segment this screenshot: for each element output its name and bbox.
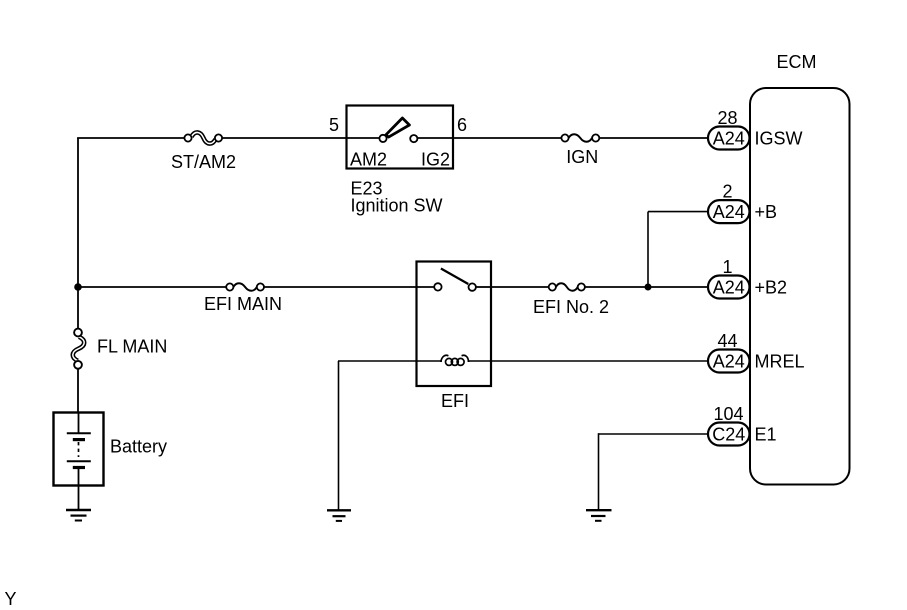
contact IG2	[410, 135, 417, 142]
wire: MREL ground leg riser (x=338)	[338, 361, 340, 510]
switch lever (key wedge)	[386, 118, 410, 137]
battery box	[54, 413, 104, 486]
svg-text:EFI No. 2: EFI No. 2	[533, 297, 609, 317]
wire: fuse IGN to ECM pin IGSW	[599, 137, 709, 139]
wire: +B branch to ECM pin +B	[648, 211, 709, 213]
wire: E1 ground riser	[598, 433, 600, 510]
wire: E23 internal, IG2 contact to pin 6	[417, 137, 453, 139]
wire: ECM pin E1 to ground leg	[599, 433, 710, 435]
ground (battery)	[66, 510, 91, 521]
svg-text:6: 6	[457, 115, 467, 135]
fusible link ST/AM2	[184, 132, 222, 143]
connector C24 pin E1	[708, 423, 750, 446]
fusible link FL MAIN	[73, 329, 84, 369]
ignition switch E23 box	[347, 106, 454, 169]
wire: fuse EFI MAIN to EFI relay box	[264, 286, 416, 288]
wire: E23 internal, pin5 to AM2 contact	[346, 137, 379, 139]
battery cell 2 plates	[67, 461, 91, 467]
svg-text:28: 28	[717, 108, 737, 128]
svg-text:2: 2	[722, 182, 732, 202]
svg-text:C24: C24	[712, 424, 745, 444]
relay contact left	[434, 283, 441, 290]
svg-text:AM2: AM2	[350, 150, 387, 170]
wire: ground leg to EFI relay coil	[338, 360, 416, 362]
wire: junction to fuse EFI MAIN	[78, 286, 226, 288]
svg-text:+B: +B	[755, 202, 778, 222]
wire: battery positive riser (x=78, y=138..287)	[77, 138, 79, 287]
svg-text:A24: A24	[713, 202, 745, 222]
svg-text:ST/AM2: ST/AM2	[171, 152, 236, 172]
svg-text:A24: A24	[713, 351, 745, 371]
relay contact right	[469, 283, 476, 290]
svg-text:A24: A24	[713, 128, 745, 148]
svg-text:+B2: +B2	[755, 278, 788, 298]
junction dot at battery riser / EFI MAIN feed	[74, 283, 82, 291]
connector A24 pin +B2	[708, 276, 750, 299]
svg-text:Ignition SW: Ignition SW	[351, 196, 443, 216]
svg-text:EFI: EFI	[441, 391, 469, 411]
wire: +B branch riser	[647, 212, 649, 287]
wire: battery negative lead to ground	[78, 469, 80, 510]
junction node +B branch	[645, 284, 652, 291]
wire: EFI relay to fuse EFI No. 2	[491, 286, 549, 288]
ground (E1)	[586, 510, 612, 521]
contact AM2	[379, 135, 386, 142]
relay switch blade	[441, 269, 468, 285]
svg-text:FL MAIN: FL MAIN	[97, 337, 167, 357]
connector A24 pin IGSW	[708, 127, 750, 150]
ground (EFI relay coil)	[327, 510, 351, 521]
svg-text:A24: A24	[713, 277, 745, 297]
wire: fuse ST/AM2 to ignition switch pin 5	[222, 137, 346, 139]
svg-text:IG2: IG2	[421, 150, 450, 170]
svg-text:ECM: ECM	[777, 52, 817, 72]
relay coil L1	[441, 355, 469, 365]
battery cell 1 plates	[67, 433, 91, 439]
wire: top feed from riser to fuse ST/AM2	[77, 137, 184, 139]
connector A24 pin +B	[708, 200, 750, 223]
battery cell divider (dashed)	[78, 442, 80, 457]
svg-text:1: 1	[722, 257, 732, 277]
svg-text:EFI MAIN: EFI MAIN	[204, 294, 282, 314]
svg-text:IGN: IGN	[566, 147, 598, 167]
EFI relay box	[417, 262, 492, 387]
svg-text:IGSW: IGSW	[755, 129, 803, 149]
wire: FL MAIN to battery	[77, 369, 79, 413]
wire: relay right contact to box edge	[476, 286, 491, 288]
svg-text:104: 104	[713, 404, 743, 424]
ECM box	[750, 88, 850, 485]
fuse EFI MAIN	[226, 283, 264, 291]
svg-text:Battery: Battery	[110, 437, 167, 457]
wire: fuse EFI No. 2 to ECM pin +B2	[585, 286, 709, 288]
fuse EFI No. 2	[549, 283, 585, 291]
connector A24 pin MREL	[708, 350, 750, 373]
svg-text:Y: Y	[5, 589, 17, 609]
wire: battery internal top lead	[78, 412, 80, 433]
fuse IGN	[561, 134, 599, 142]
wire: relay coil lead right to ECM pin MREL	[468, 360, 710, 362]
svg-text:5: 5	[329, 115, 339, 135]
svg-text:E1: E1	[755, 425, 777, 445]
wire: relay internal to left contact	[416, 286, 434, 288]
svg-text:MREL: MREL	[755, 352, 805, 372]
wire: relay coil lead left	[416, 360, 442, 362]
wire: ignition switch pin 6 to fuse IGN	[453, 137, 561, 139]
wire: riser junction to fusible link FL MAIN	[77, 287, 79, 330]
svg-text:44: 44	[717, 331, 737, 351]
